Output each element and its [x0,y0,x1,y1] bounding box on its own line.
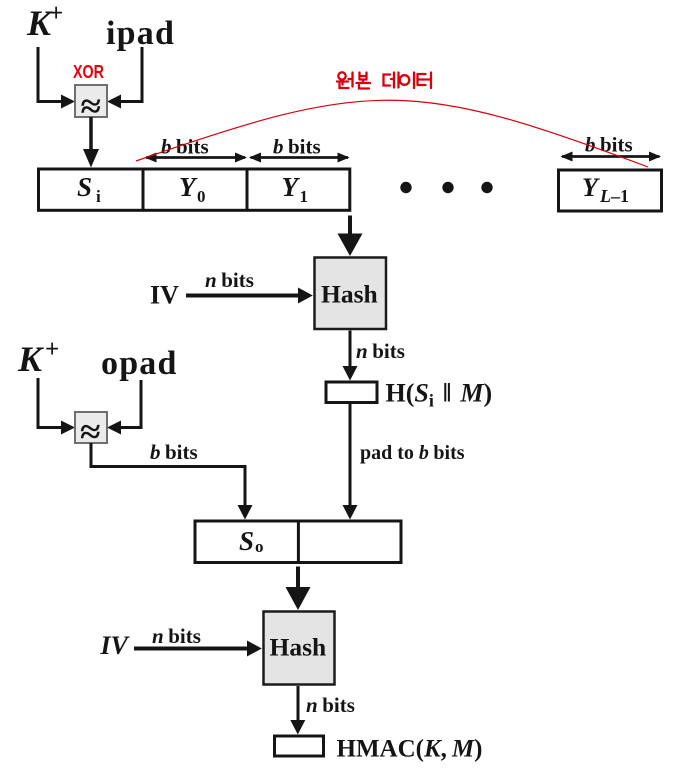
svg-text:Y: Y [179,172,198,202]
svg-text:+: + [45,336,59,363]
svg-text:pad tobbits: pad tobbits [360,442,465,464]
svg-text:nbits: nbits [306,693,355,717]
svg-text:1: 1 [300,187,309,206]
svg-text:i: i [96,187,101,206]
svg-text:L: L [599,186,611,206]
svg-text:S: S [77,172,92,202]
svg-text:0: 0 [197,187,206,206]
svg-text:HMAC(K,M): HMAC(K,M) [337,736,483,763]
svg-text:bbits: bbits [150,440,198,464]
svg-text:–1: –1 [610,186,629,206]
svg-text:ipad: ipad [106,15,175,52]
svg-text:nbits: nbits [205,268,254,292]
svg-text:bbits: bbits [161,135,209,159]
svg-text:opad: opad [101,345,178,382]
svg-text:Hash: Hash [321,280,378,309]
svg-text:Y: Y [282,172,301,202]
svg-text:XOR: XOR [73,62,104,82]
svg-text:Y: Y [582,173,600,202]
svg-text:Hash: Hash [270,633,327,662]
svg-text:bbits: bbits [273,135,321,159]
svg-text:IV: IV [150,281,179,310]
svg-text:H(Si‖M): H(Si‖M) [386,379,493,411]
svg-text:o: o [255,537,264,556]
svg-text:K: K [17,339,45,379]
svg-text:+: + [49,0,63,27]
svg-text:nbits: nbits [152,624,201,648]
svg-text:IV: IV [100,631,131,660]
svg-text:nbits: nbits [356,339,405,363]
svg-text:S: S [239,526,254,556]
